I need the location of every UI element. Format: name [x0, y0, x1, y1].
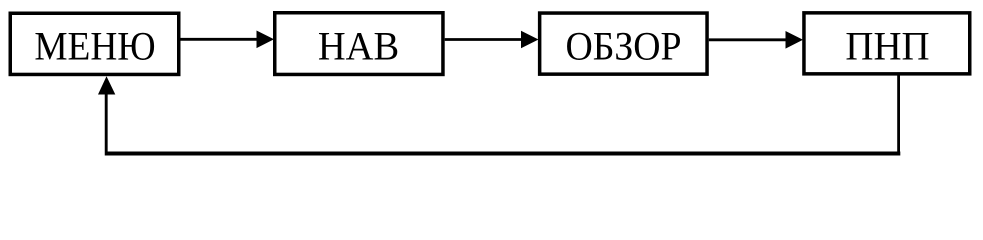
- svg-text:ПНП: ПНП: [845, 24, 929, 69]
- svg-text:МЕНЮ: МЕНЮ: [34, 24, 155, 69]
- svg-text:НАВ: НАВ: [318, 24, 399, 69]
- svg-text:ОБЗОР: ОБЗОР: [565, 24, 681, 69]
